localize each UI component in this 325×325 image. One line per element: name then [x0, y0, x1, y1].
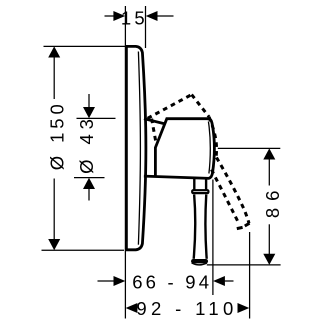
dimension 15: right arrowhead [146, 11, 158, 21]
dimension D43: top tail [88, 94, 90, 108]
dimension D150: top arrowhead [48, 46, 60, 57]
dashed open-position body right-top edge [192, 95, 210, 117]
lever right edge [205, 195, 206, 259]
svg-text:92 - 110: 92 - 110 [136, 298, 237, 319]
lever stem left [193, 179, 195, 190]
dimension 66-94: right extension line [212, 180, 214, 296]
dashed open-position body right corner arc [209, 117, 216, 158]
dimension 66-94: right arrowhead [213, 276, 225, 286]
dimension 86: top arrowhead [263, 148, 275, 159]
dimension D43: bottom extension line [74, 177, 105, 179]
wire: left wall extension line [124, 6, 126, 319]
svg-text:86: 86 [262, 184, 283, 219]
dashed open-position body left edge [152, 119, 157, 145]
lever left edge [194, 195, 196, 259]
wire: right extension line of 15 dim [145, 6, 147, 48]
dimension D43: top extension line [77, 117, 116, 119]
dimension D150: top extension line [44, 45, 126, 47]
neck sleeve top line [144, 119, 166, 124]
svg-text:66 - 94: 66 - 94 [132, 271, 212, 292]
lever stem right [205, 179, 207, 190]
dimension D150: dim line lower segment [53, 179, 55, 241]
dimension D43: bottom tail [88, 189, 90, 201]
dimension 15: left tail [105, 15, 115, 17]
dashed open-position body top edge [148, 95, 192, 119]
dimension 15: left arrowhead [113, 11, 125, 21]
valve body outline [155, 119, 214, 179]
dashed open-position lever inner line [212, 170, 240, 225]
dimension 92-110: left arrowhead [126, 303, 138, 313]
dimension 66-94: left arrowhead [114, 276, 126, 286]
escutcheon plate outline [126, 46, 145, 249]
dimension D150: dim line upper segment [53, 57, 55, 100]
dimension 92-110: right arrowhead [238, 303, 250, 313]
dimension 86: dim line lower segment [268, 224, 270, 254]
dashed open-position lever tip cap dash 1 [237, 227, 243, 228]
dashed open-position lever outer line [217, 158, 250, 224]
dimension 86: bottom arrowhead [263, 254, 275, 265]
dashed open-position lever tip cap dash 2 [245, 223, 250, 226]
dimension D43: bottom arrowhead [83, 178, 95, 189]
valve body bottom line [144, 176, 210, 178]
lever collar [192, 190, 208, 193]
dimension 66-94: right tail [225, 280, 234, 282]
dimension 15: right tail [157, 15, 174, 17]
dimension 86: dim line upper segment [268, 159, 270, 186]
svg-text:15: 15 [121, 7, 148, 28]
dimension 92-110: right extension line [249, 232, 251, 319]
lever foot underside arc [192, 263, 207, 265]
dimension D150: bottom arrowhead [48, 239, 60, 250]
svg-text:Ø 43: Ø 43 [76, 114, 97, 174]
valve body inner face line [208, 122, 210, 174]
dimension 86: top extension line [218, 147, 280, 149]
svg-text:Ø 150: Ø 150 [46, 100, 67, 170]
dimension D150: bottom extension line [42, 249, 125, 251]
escutcheon plate inner face line [138, 52, 140, 245]
dimension 66-94: left tail [98, 280, 115, 282]
dimension D43: top arrowhead [83, 107, 95, 118]
lever foot pad band [193, 259, 206, 263]
dimension 86: bottom extension line [207, 264, 281, 266]
